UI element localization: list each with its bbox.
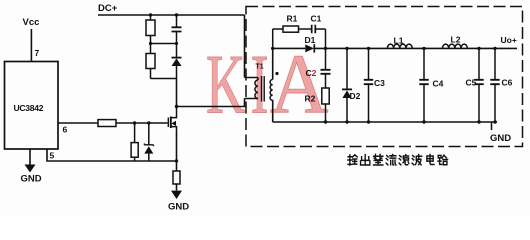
capacitor C6 xyxy=(490,48,499,122)
label C3 xyxy=(374,78,385,88)
label R2 xyxy=(305,94,316,104)
svg-text:UC3842: UC3842 xyxy=(14,103,44,113)
pin 6 label xyxy=(63,125,68,135)
svg-text:GND: GND xyxy=(168,202,189,213)
node dot rail C3 xyxy=(367,120,370,123)
dashed box output section xyxy=(246,7,523,147)
svg-text:K: K xyxy=(206,37,245,131)
node dot gate-zener junction xyxy=(147,121,150,124)
node dot rail C6 xyxy=(493,120,496,123)
label GND left xyxy=(21,174,42,185)
wire snubber mid left xyxy=(150,36,152,54)
svg-text:R2: R2 xyxy=(305,94,316,104)
node dot C6 top xyxy=(493,47,496,50)
label DC+ xyxy=(98,3,118,14)
label C6 xyxy=(502,78,513,88)
transformer polarity dot xyxy=(275,72,278,75)
label D1 xyxy=(305,35,316,45)
watermark KIA xyxy=(206,37,328,132)
svg-text:C4: C4 xyxy=(433,79,444,89)
resistor snubber lower xyxy=(146,54,155,79)
transformer T1 secondary winding xyxy=(270,80,273,101)
resistor snubber upper xyxy=(146,15,155,36)
node dot gate-R junction xyxy=(133,121,136,124)
node dot rail C2R2 xyxy=(324,120,327,123)
node dot C3 top xyxy=(367,47,370,50)
label GND right xyxy=(490,133,511,144)
svg-text:C3: C3 xyxy=(374,78,385,88)
transformer T1 core xyxy=(262,76,265,102)
inductor L1 xyxy=(387,44,412,48)
svg-text:I: I xyxy=(251,37,269,131)
resistor R1 xyxy=(283,26,299,32)
label C2 xyxy=(306,68,317,78)
wire pin6 line xyxy=(58,122,168,124)
node dot D1 cathode xyxy=(324,47,327,50)
wire secondary top lead xyxy=(272,48,274,79)
wire output main line xyxy=(273,47,517,49)
label C1 xyxy=(311,14,322,24)
transformer T1 primary lead top xyxy=(245,77,259,79)
wire snubber bottom horizontal xyxy=(151,78,177,80)
wire DC+ bus xyxy=(98,14,245,16)
transformer T1 primary lead bottom xyxy=(245,98,259,100)
node dot C4 top xyxy=(422,47,425,50)
node dot bus-snubberR xyxy=(149,13,152,16)
pin 7 label xyxy=(35,48,40,58)
svg-text:L2: L2 xyxy=(451,35,461,45)
wire pin5 to source rail xyxy=(47,149,177,161)
label L2 xyxy=(451,35,461,45)
capacitor C1 xyxy=(312,25,316,34)
node dot rail C4 xyxy=(422,120,425,123)
svg-text:GND: GND xyxy=(490,133,511,144)
caption output rectifier filter (hand-drawn CJK) xyxy=(348,154,448,165)
label C4 xyxy=(433,79,444,89)
wire RC rail xyxy=(273,28,326,30)
svg-text:C6: C6 xyxy=(502,78,513,88)
label C5 xyxy=(466,78,477,88)
wire source vertical xyxy=(176,131,178,171)
wire output bottom rail xyxy=(273,121,497,123)
svg-text:DC+: DC+ xyxy=(98,3,118,14)
node dot D2 top xyxy=(345,47,348,50)
node dot drain junction xyxy=(175,105,178,108)
label R1 xyxy=(287,14,298,24)
node dot source-rail junction xyxy=(175,159,178,162)
svg-text:T1: T1 xyxy=(256,64,264,71)
capacitor C3 xyxy=(364,48,373,122)
capacitor C4 xyxy=(419,48,428,122)
diode D2 freewheel xyxy=(342,48,352,122)
svg-text:R1: R1 xyxy=(287,14,298,24)
pin 5 label xyxy=(50,151,55,161)
ground IC arrow xyxy=(25,149,36,173)
resistor gate series xyxy=(98,120,116,127)
resistor current sense xyxy=(173,171,180,184)
transistor Q1 MOSFET xyxy=(168,107,176,132)
svg-text:D1: D1 xyxy=(305,35,316,45)
wire drain to primary bottom xyxy=(177,99,245,107)
node dot output left xyxy=(271,47,274,50)
transformer T1 primary winding xyxy=(255,78,258,99)
svg-text:5: 5 xyxy=(50,151,55,161)
svg-text:GND: GND xyxy=(21,174,42,185)
svg-text:C2: C2 xyxy=(306,68,317,78)
diode clamp snubber xyxy=(172,58,182,79)
wire RC rail left riser xyxy=(272,29,274,48)
resistor gate pulldown xyxy=(131,123,138,161)
label UC3842 xyxy=(14,103,44,113)
label Uo+ xyxy=(501,35,517,45)
capacitor C5 xyxy=(474,48,483,122)
svg-text:A: A xyxy=(270,37,328,131)
diode D1 xyxy=(305,44,314,52)
svg-text:D2: D2 xyxy=(350,91,361,101)
label Vcc xyxy=(23,17,40,28)
ground stub output xyxy=(491,122,493,130)
capacitor C2 xyxy=(321,48,331,88)
wire secondary bottom lead xyxy=(272,100,274,122)
inductor L2 xyxy=(443,44,468,48)
wire snubber mid horizontal xyxy=(149,42,178,45)
node dot rail C5 xyxy=(477,120,480,123)
svg-text:6: 6 xyxy=(63,125,68,135)
label D2 xyxy=(350,91,361,101)
label GND mid xyxy=(168,202,189,213)
svg-text:Uo+: Uo+ xyxy=(501,35,517,45)
svg-text:Vcc: Vcc xyxy=(23,17,40,28)
svg-text:7: 7 xyxy=(35,48,40,58)
resistor R2 xyxy=(322,88,329,122)
zener diode gate clamp xyxy=(144,123,154,161)
transformer T1 label xyxy=(256,64,264,71)
IC U1 UC3842 box xyxy=(5,62,59,150)
svg-text:C1: C1 xyxy=(311,14,322,24)
node dot bus-snubberC xyxy=(175,13,178,16)
wire DC+ down to primary xyxy=(244,15,246,78)
wire snubber to drain xyxy=(176,79,178,107)
capacitor snubber xyxy=(172,15,182,57)
label L1 xyxy=(394,36,404,46)
node dot rail D2 xyxy=(345,120,348,123)
wire RC rail right riser xyxy=(325,29,327,48)
node dot C5 top xyxy=(477,47,480,50)
ground source arrow xyxy=(171,184,182,199)
wire Vcc lead xyxy=(30,29,32,61)
